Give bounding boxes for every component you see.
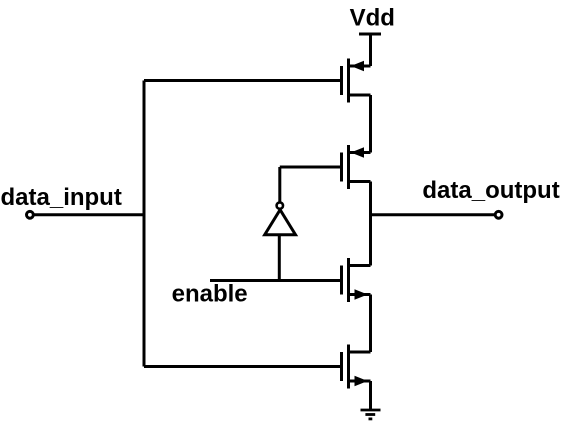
- svg-text:data_output: data_output: [422, 177, 559, 204]
- svg-text:enable: enable: [172, 281, 248, 308]
- svg-text:data_input: data_input: [1, 184, 122, 211]
- svg-text:Vdd: Vdd: [350, 5, 395, 32]
